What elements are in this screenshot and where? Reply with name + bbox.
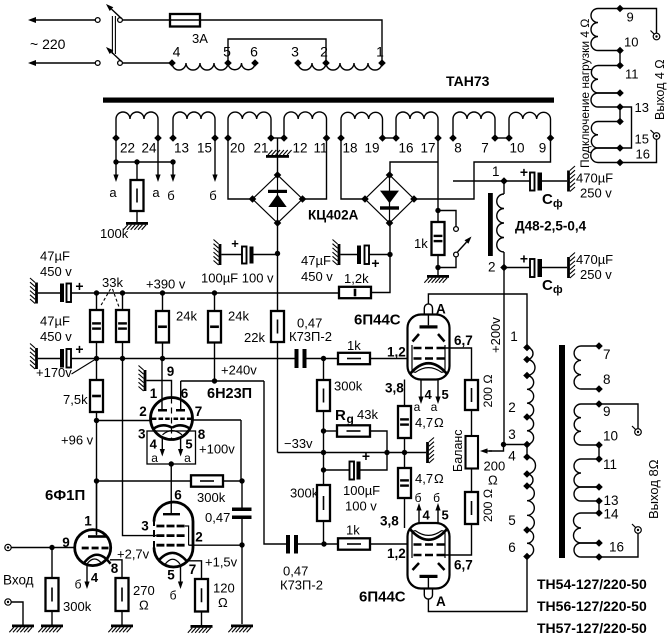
resistor R 270 Ohm [116, 578, 129, 611]
svg-text:24: 24 [141, 141, 157, 156]
6N23P heater pin4 arrow [161, 439, 163, 450]
6F1P pentode cathode arc [159, 553, 187, 561]
wire bias divider column [96, 412, 98, 534]
svg-text:13: 13 [635, 100, 649, 115]
wire cathode reference line [324, 452, 427, 454]
6F1P pin9 grid input line [11, 547, 74, 549]
svg-text:300k: 300k [334, 379, 363, 394]
svg-text:ТН54-127/220-50: ТН54-127/220-50 [537, 576, 647, 592]
svg-text:24k: 24k [176, 309, 197, 324]
svg-text:2: 2 [488, 260, 496, 275]
6F1P pentode anode bar [163, 513, 180, 515]
svg-text:4: 4 [91, 570, 99, 585]
node choke pin1 [500, 177, 508, 185]
switch S1 pole lower [118, 61, 123, 66]
capacitor C 0,47 K73P-2 (upper) [295, 349, 299, 368]
node tap2 [322, 59, 330, 67]
svg-text:Д48-2,5-0,4: Д48-2,5-0,4 [515, 219, 587, 234]
svg-text:5: 5 [167, 568, 175, 583]
svg-text:0,47: 0,47 [205, 510, 230, 525]
6P44S lower heater arrows [418, 511, 420, 524]
wire secondary 9 to output terminal [599, 404, 638, 429]
wire 21-12 centre tap to ground [277, 138, 279, 175]
pentode U2b 6F1P envelope [154, 502, 193, 567]
svg-text:К73П-2: К73П-2 [289, 329, 332, 344]
svg-text:16: 16 [636, 147, 650, 162]
node 24k-2 top [212, 290, 217, 295]
svg-text:1: 1 [150, 386, 158, 401]
wire 17 to bridge VD2 top [437, 138, 439, 162]
wire 200 lower to 6,7 lower [445, 524, 472, 555]
svg-text:а: а [151, 451, 158, 465]
node 24k-1 bottom anode [160, 356, 165, 361]
wire fuse to primary tap 1 [200, 20, 382, 63]
resistor R 1k (surge) [437, 211, 439, 223]
svg-text:3,8: 3,8 [380, 514, 399, 529]
svg-text:3: 3 [508, 427, 516, 442]
svg-text:100 v: 100 v [345, 499, 377, 514]
svg-text:47µF: 47µF [40, 249, 70, 264]
svg-text:1: 1 [376, 44, 384, 60]
svg-text:2: 2 [195, 530, 203, 545]
svg-text:8: 8 [198, 427, 206, 442]
node pentode grid [239, 542, 244, 547]
resistor R 200 Ohm upper [465, 380, 478, 410]
svg-text:Ω: Ω [434, 471, 444, 486]
svg-text:1: 1 [510, 329, 518, 344]
wire cathodes to 6F1P pentode anode [170, 464, 172, 513]
wire +200v to primary tap 3 [504, 444, 528, 446]
resistor R 4,7 Ohm (lower cathode) [404, 453, 406, 469]
svg-text:16: 16 [609, 540, 624, 555]
input terminal lower with ground [5, 599, 11, 605]
svg-text:1k: 1k [347, 338, 361, 353]
svg-text:5: 5 [185, 437, 192, 452]
svg-text:1: 1 [84, 514, 92, 529]
svg-text:Ω: Ω [218, 595, 228, 610]
node -33v junction [321, 450, 326, 455]
svg-text:15: 15 [197, 141, 212, 156]
inductor L1 D48-2,5-0,4 [488, 193, 493, 256]
6P44S upper cathode slants [413, 334, 420, 342]
svg-text:8: 8 [111, 561, 119, 576]
svg-text:б: б [415, 491, 422, 505]
6F1P pin7 cathode to 120 [187, 561, 202, 579]
svg-text:+96 v: +96 v [61, 433, 94, 448]
svg-text:2: 2 [320, 44, 328, 60]
svg-text:200 Ω: 200 Ω [481, 489, 495, 522]
resistor R 1k (upper grid stopper) [338, 353, 370, 364]
node 24k-2 bottom [212, 378, 217, 383]
wire 17-tap down to 1k [437, 162, 439, 211]
svg-text:а: а [109, 185, 117, 200]
svg-text:+240v: +240v [221, 363, 257, 378]
node VD2 minus [387, 252, 392, 257]
4ohm inset wire to terminal upper [620, 9, 657, 34]
fuse FU1 3A [170, 19, 200, 21]
6P44S upper grid row2 [414, 357, 422, 360]
svg-text:Ω: Ω [488, 473, 498, 488]
svg-text:300k: 300k [63, 599, 92, 614]
svg-text:47µF: 47µF [301, 253, 331, 268]
ground 270 [121, 611, 123, 625]
svg-text:+390 v: +390 v [146, 277, 186, 292]
node junction 22-bus [113, 159, 118, 164]
tetrode V2 6P44S (lower) envelope [408, 523, 450, 589]
svg-text:450 v: 450 v [301, 269, 333, 284]
6N23P cathode arcs [154, 425, 173, 428]
svg-text:1k: 1k [346, 523, 360, 538]
ground 0,47 cap [231, 625, 253, 628]
transformer T1 secondary winding 13-15 [172, 119, 174, 138]
transformer T1 primary winding 3-2-1 [298, 63, 326, 70]
svg-text:12: 12 [292, 141, 307, 156]
svg-text:9: 9 [62, 535, 70, 550]
node tap3 [294, 59, 302, 67]
node lower grid R junction [321, 541, 326, 546]
svg-text:КЦ402А: КЦ402А [308, 208, 359, 223]
node input junction [49, 545, 54, 550]
resistor R 200 Ohm lower [471, 469, 473, 493]
svg-text:С: С [542, 191, 553, 208]
svg-text:3: 3 [291, 44, 299, 60]
wire secondary 16 to output terminal [599, 534, 638, 558]
ground centre tap (hatch up) [266, 155, 289, 158]
node tap1 [378, 59, 386, 67]
6P44S upper grid row1 [414, 347, 422, 350]
svg-text:+2,7v: +2,7v [117, 547, 150, 562]
svg-text:7: 7 [603, 347, 611, 362]
6N23P pin1 lead to 24k [161, 359, 163, 410]
node feedback cap top [239, 478, 244, 483]
transformer T1 secondary winding 12-11 [283, 119, 285, 138]
node 33k-2 bottom [120, 356, 125, 361]
transformer T1 secondary winding 16-17 [395, 119, 397, 138]
bridge rectifier VD2 KTs402A [365, 175, 414, 223]
svg-text:17: 17 [420, 141, 435, 156]
svg-text:11: 11 [625, 67, 639, 82]
6N23P grid dashes [152, 418, 170, 421]
svg-text:22k: 22k [244, 330, 265, 345]
node Rg down [384, 450, 389, 455]
6F1P pin1 lead [96, 481, 98, 535]
svg-text:9: 9 [627, 10, 634, 25]
node choke pin2 [500, 264, 508, 272]
svg-text:Баланс: Баланс [451, 429, 465, 472]
svg-text:Подключение нагрузки 4 Ω: Подключение нагрузки 4 Ω [578, 19, 592, 168]
wire feedback line with 300k [97, 480, 192, 482]
svg-text:б: б [209, 188, 216, 203]
svg-text:+: + [75, 341, 83, 357]
svg-text:120: 120 [213, 581, 235, 596]
wire join 19-16 [383, 137, 397, 139]
svg-text:100µF: 100µF [343, 483, 380, 498]
svg-text:б: б [433, 491, 440, 505]
svg-text:0,47: 0,47 [283, 564, 308, 579]
svg-text:5: 5 [442, 387, 449, 402]
transformer T1 core [103, 98, 554, 103]
6P44S lower anode bottom cap [424, 589, 432, 600]
6P44S upper anode bar [420, 325, 438, 328]
node 100uF junction [275, 251, 280, 256]
4ohm inset winding [598, 8, 620, 10]
ground 100k [126, 222, 148, 225]
svg-text:4: 4 [508, 449, 516, 464]
svg-text:б: б [75, 578, 82, 592]
tetrode V1 6P44S (upper) envelope [408, 315, 450, 380]
transformer T2 primary [527, 348, 533, 360]
6F1P triode anode bar [88, 535, 106, 538]
wire 13 down with heater arrow b [172, 162, 174, 175]
svg-text:Ω: Ω [434, 415, 444, 430]
wire +200v column [503, 268, 505, 445]
svg-text:+100v: +100v [199, 442, 235, 457]
potentiometer Balance [466, 436, 479, 469]
transformer T1 secondary winding 10-9 [508, 119, 510, 138]
capacitor C 47uF 450v upper [35, 283, 38, 304]
wire bridge VD1 output down [277, 223, 279, 311]
wire -33v to bias node [278, 452, 324, 454]
capacitor C 0,47 (grid decoupling) [241, 481, 243, 508]
6N23P pin9 shield to ground wall [171, 398, 173, 439]
resistor R 7,5k [96, 359, 98, 381]
resistor R 1,2k [339, 287, 371, 298]
6P44S upper heater arrows [420, 380, 422, 397]
svg-text:а: а [184, 451, 191, 465]
svg-text:6: 6 [508, 540, 516, 555]
svg-text:ТАН73: ТАН73 [446, 73, 490, 89]
svg-text:18: 18 [342, 141, 357, 156]
resistor R 300k (lower grid leak) [317, 485, 330, 521]
resistor Rg 43k [324, 430, 338, 432]
svg-text:6,7: 6,7 [454, 558, 473, 573]
node 1k bottom [435, 265, 440, 270]
6N23P pin7 grid2 line down [193, 419, 241, 421]
svg-text:1,2: 1,2 [387, 345, 406, 360]
svg-text:14: 14 [604, 507, 620, 522]
svg-text:6П44С: 6П44С [359, 589, 406, 606]
svg-text:16: 16 [398, 141, 413, 156]
wire 22 down with heater arrow a [115, 138, 117, 175]
6P44S lower grid row1 [414, 543, 422, 546]
svg-text:2: 2 [139, 404, 147, 419]
svg-text:6: 6 [250, 44, 258, 60]
6F1P pentode heater arc [165, 559, 180, 564]
svg-text:33k: 33k [102, 275, 123, 290]
node +200v wiper [501, 442, 506, 447]
svg-text:9: 9 [167, 364, 175, 379]
capacitor C filter 470uF lower [504, 267, 530, 269]
node feedback junction [94, 478, 99, 483]
6F1P pin4 heater arrow [86, 564, 88, 582]
4ohm inset strap 13-15 [620, 107, 632, 148]
svg-text:11: 11 [313, 141, 327, 156]
svg-text:1k: 1k [414, 236, 428, 251]
svg-text:9: 9 [603, 404, 611, 419]
svg-text:6: 6 [174, 488, 182, 503]
svg-text:2: 2 [508, 400, 516, 415]
capacitor C 47uF 450v lower [35, 348, 38, 369]
svg-text:+: + [371, 255, 379, 271]
input terminal upper [5, 544, 11, 550]
svg-text:8: 8 [454, 141, 462, 156]
resistor R 22k [271, 311, 284, 342]
svg-text:21: 21 [253, 141, 268, 156]
svg-text:450 v: 450 v [40, 264, 72, 279]
svg-text:g: g [347, 412, 354, 426]
ground 120 [201, 612, 203, 626]
wire screen feed column to 6F1P pin3 [123, 359, 157, 536]
svg-text:+: + [520, 164, 528, 180]
svg-text:24k: 24k [228, 309, 249, 324]
node 24k-1 top [160, 290, 165, 295]
node 1k top [435, 208, 440, 213]
transformer T1 secondary winding 18-19 [340, 119, 342, 138]
6P44S upper pin 6,7 line [445, 348, 472, 380]
triode U1 6N23P envelope [151, 398, 193, 440]
capacitor C 100uF 100v (PSU) [219, 244, 222, 265]
svg-text:9: 9 [539, 141, 547, 156]
node Rg junction [321, 428, 326, 433]
wire 11 to bridge VD1 right [302, 138, 327, 199]
wire +240v anode line [181, 380, 264, 382]
svg-text:250 v: 250 v [580, 267, 612, 282]
svg-text:22: 22 [120, 141, 135, 156]
wire ~220 line lower [35, 62, 95, 64]
svg-text:6П44С: 6П44С [354, 312, 401, 329]
svg-text:4,7: 4,7 [415, 415, 433, 430]
wire 15 down with heater arrow b [214, 138, 216, 175]
wire join 21-12 [271, 137, 284, 139]
svg-text:б: б [167, 188, 174, 203]
svg-text:6Н23П: 6Н23П [207, 386, 252, 402]
6F1P pin8 cathode to 270 [110, 560, 122, 578]
transformer T2 core [559, 345, 565, 558]
svg-text:450 v: 450 v [40, 329, 72, 344]
6N23P heater pin5 arrow [180, 439, 182, 450]
svg-text:+1,5v: +1,5v [205, 555, 238, 570]
resistor R 33k (selected pair) [96, 293, 98, 310]
svg-text:а: а [152, 185, 160, 200]
resistor R 120 Ohm [195, 579, 208, 612]
svg-text:3,8: 3,8 [385, 381, 404, 396]
svg-text:+: + [75, 278, 83, 294]
svg-text:6: 6 [181, 386, 189, 401]
wire VD2 bottom to 1,2k [371, 223, 390, 293]
svg-text:15: 15 [635, 132, 649, 147]
svg-text:20: 20 [230, 141, 245, 156]
switch S1 mechanical link [111, 16, 113, 54]
node junction 100k [134, 159, 139, 164]
6P44S lower anode bar [420, 575, 438, 578]
svg-text:200: 200 [484, 459, 506, 474]
svg-text:+170v: +170v [36, 365, 72, 380]
balance wiper arrow [489, 445, 504, 452]
6P44S lower grid row2 [414, 554, 422, 557]
4ohm inset wire to terminal lower [620, 139, 657, 162]
svg-text:3А: 3А [192, 31, 208, 46]
svg-text:R: R [335, 407, 346, 424]
svg-text:7: 7 [481, 141, 489, 156]
6F1P triode grid dashes [82, 547, 109, 550]
svg-text:Вход: Вход [3, 573, 34, 588]
svg-text:Выход 8Ω: Выход 8Ω [646, 459, 661, 519]
svg-text:3: 3 [138, 427, 146, 442]
svg-text:А: А [436, 302, 446, 317]
wire 22k down to -33v corner [277, 342, 279, 453]
6N23P anode bars [158, 409, 167, 412]
resistor R 24k (first) [162, 293, 164, 311]
svg-text:ТН56-127/220-50: ТН56-127/220-50 [537, 598, 647, 614]
capacitor C 100uF 100v (bias) [324, 469, 350, 471]
switch SA2 across 1k [438, 211, 456, 227]
svg-text:270: 270 [133, 583, 155, 598]
resistor R 100k [136, 162, 138, 180]
6F1P pentode pin2 grid line [189, 544, 242, 546]
resistor R 24k (second) [214, 293, 216, 311]
svg-text:−33v: −33v [284, 436, 313, 451]
resistor R 300k (feedback) [191, 475, 223, 486]
wire grid1 line to 6N23P pin2 [97, 420, 151, 422]
svg-text:С: С [542, 277, 553, 294]
wire join 7-10 [495, 137, 509, 139]
svg-text:7,5k: 7,5k [63, 392, 88, 407]
svg-text:ф: ф [553, 198, 563, 210]
wire +170 rail / anode bus [97, 358, 295, 360]
wire heater bus [116, 161, 173, 163]
node 100uF junction [321, 467, 326, 472]
wire anode2 coupling down [264, 381, 286, 544]
svg-text:5: 5 [442, 508, 449, 523]
svg-text:~ 220: ~ 220 [30, 36, 66, 52]
6N23P heater arc [163, 431, 183, 435]
svg-text:19: 19 [364, 141, 379, 156]
node upper grid R junction [321, 356, 326, 361]
wire ~220 line upper [35, 19, 95, 21]
svg-text:Выход 4 Ω: Выход 4 Ω [653, 59, 667, 120]
svg-text:А: А [436, 594, 446, 609]
ground 300k input [51, 611, 53, 625]
node 33k-2 top [120, 290, 125, 295]
svg-text:7: 7 [189, 562, 197, 577]
wire switch to primary tap 4 [122, 62, 172, 64]
6P44S lower dome arcs [410, 529, 448, 540]
transformer T1 secondary winding 22-24 [115, 119, 117, 138]
svg-text:5: 5 [508, 513, 516, 528]
ground wall cathode line [426, 442, 429, 463]
6N23P pin6 lead [180, 381, 182, 409]
svg-text:470µF: 470µF [576, 252, 613, 267]
wire strap tap5 to tap2 [228, 39, 326, 61]
svg-text:4: 4 [423, 508, 431, 523]
resistor R 4,7 Ohm (upper cathode) [404, 380, 406, 407]
wire 9 to bridge VD2 right [415, 138, 551, 199]
svg-text:а: а [431, 400, 438, 414]
svg-text:300k: 300k [290, 486, 319, 501]
triode U2a 6F1P envelope [75, 530, 111, 566]
svg-text:100µF 100 v: 100µF 100 v [201, 271, 274, 286]
6F1P triode cathode arc [83, 555, 111, 565]
svg-text:4: 4 [150, 437, 158, 452]
svg-text:1,2k: 1,2k [344, 271, 369, 286]
svg-text:10: 10 [603, 429, 618, 444]
svg-text:43k: 43k [357, 407, 378, 422]
6F1P pin5 heater arrow [180, 565, 182, 582]
svg-text:7: 7 [195, 404, 203, 419]
svg-text:5: 5 [223, 44, 231, 60]
resistor R 300k (input) [51, 548, 53, 579]
svg-text:б: б [170, 589, 177, 603]
